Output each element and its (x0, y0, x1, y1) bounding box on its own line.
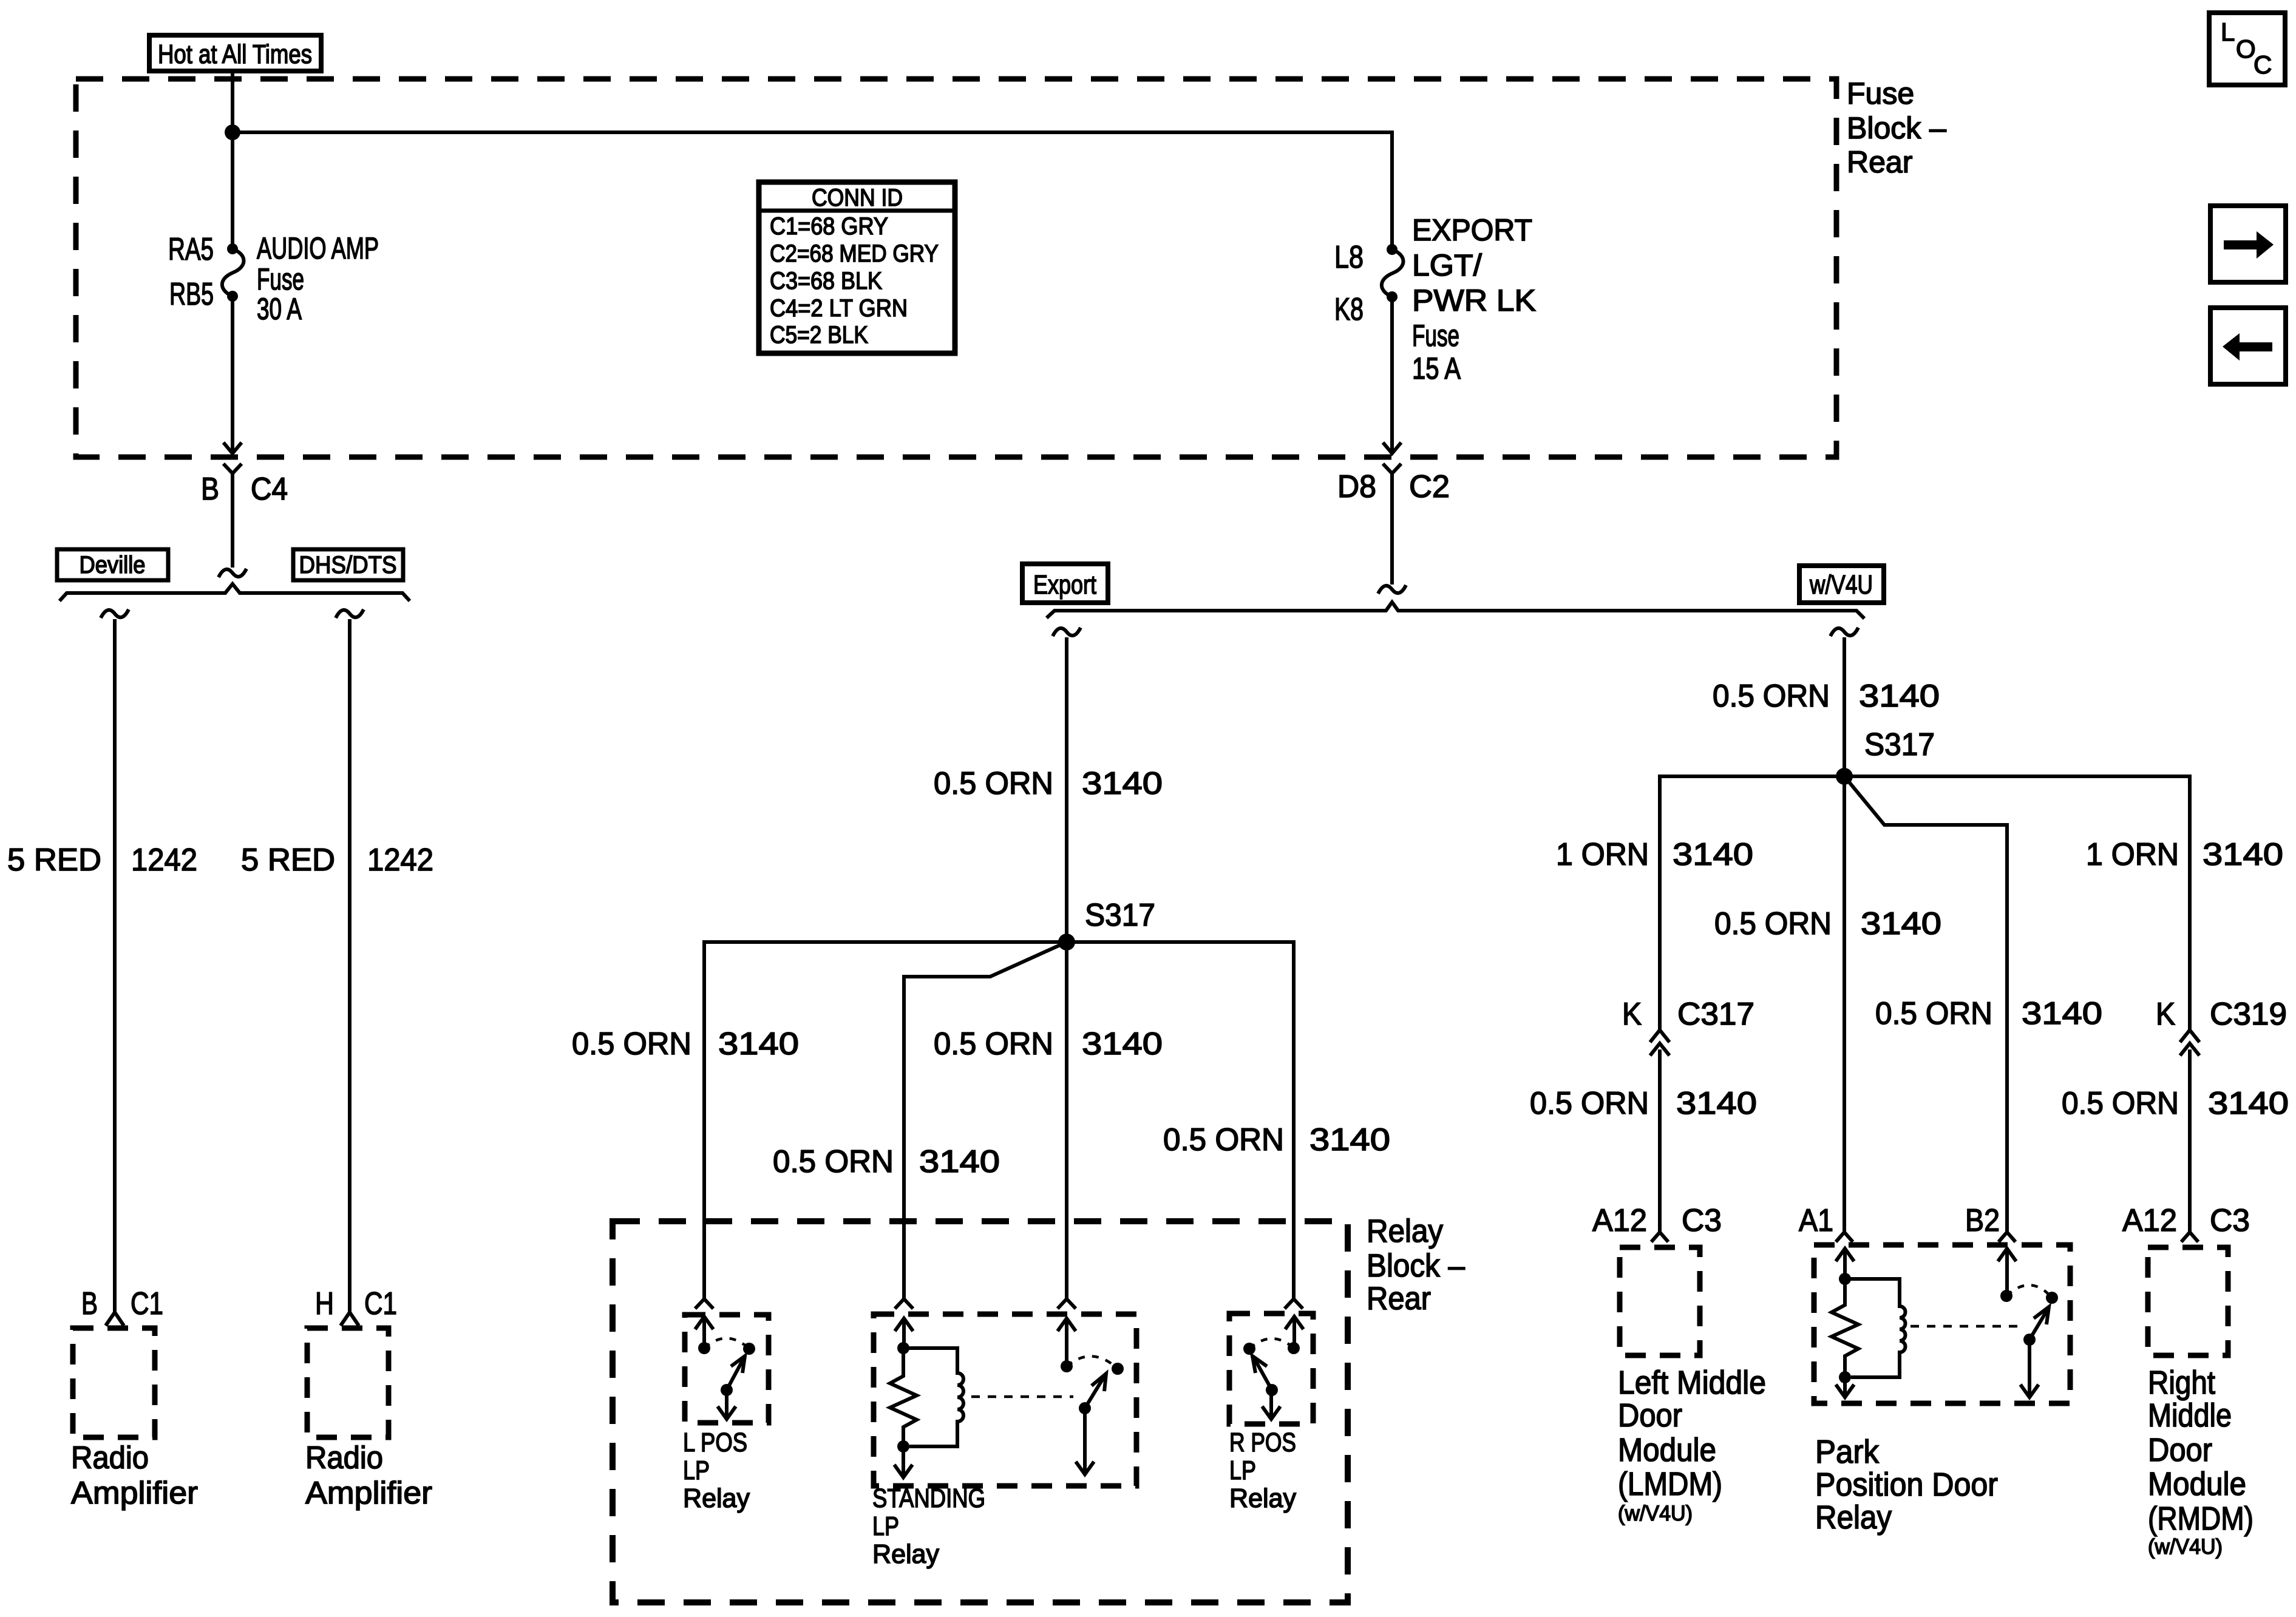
svg-text:K: K (2156, 997, 2175, 1032)
R POS LP relay dashed box (1229, 1314, 1313, 1424)
wire label 1 ORN / 3140 (RMDM branch) (2086, 837, 2283, 872)
svg-text:Relay: Relay (683, 1483, 750, 1513)
svg-text:AUDIO AMP: AUDIO AMP (257, 231, 379, 265)
Park Position Door Relay dashed box (1814, 1245, 2070, 1403)
svg-text:Rear: Rear (1367, 1281, 1431, 1317)
svg-text:C3: C3 (1682, 1203, 1722, 1238)
coil in Park relay (1845, 1279, 1906, 1377)
svg-text:C: C (2254, 50, 2272, 79)
svg-text:S317: S317 (1085, 898, 1155, 933)
svg-text:3140: 3140 (2203, 837, 2283, 872)
Park relay switch arm (2029, 1307, 2049, 1340)
RMDM dashed box (2148, 1247, 2228, 1355)
svg-text:3140: 3140 (1082, 766, 1163, 801)
label: Radio Amplifier (right) (305, 1440, 432, 1511)
svg-text:30 A: 30 A (257, 292, 302, 326)
svg-text:CONN ID: CONN ID (812, 185, 903, 211)
wire: S317 right branch to R POS relay (1067, 942, 1294, 1299)
wire: Deville branch down to Radio Amplifier (113, 619, 117, 1312)
svg-text:L8: L8 (1334, 240, 1364, 275)
svg-text:LGT/: LGT/ (1412, 248, 1482, 282)
svg-text:C319: C319 (2210, 997, 2287, 1032)
STANDING relay switch arm (1085, 1374, 1106, 1408)
wire break squiggle top of DHS/DTS wire (336, 609, 364, 618)
svg-text:0.5 ORN: 0.5 ORN (1875, 996, 1992, 1031)
svg-text:(RMDM): (RMDM) (2148, 1500, 2254, 1537)
svg-text:A12: A12 (1592, 1203, 1647, 1238)
svg-text:PWR LK: PWR LK (1412, 283, 1536, 317)
svg-text:0.5 ORN: 0.5 ORN (1714, 906, 1832, 941)
svg-text:R POS: R POS (1229, 1428, 1296, 1457)
wire label 5 RED / 1242 (left) (7, 842, 197, 878)
label: Left Middle Door Module (LMDM) (w/V4U) (1618, 1364, 1766, 1525)
connector B2 into Park relay (1999, 1232, 2016, 1242)
svg-text:3140: 3140 (2208, 1086, 2289, 1121)
svg-text:C3: C3 (2210, 1203, 2250, 1238)
L POS relay fixed contact (right) (743, 1343, 755, 1355)
svg-text:(LMDM): (LMDM) (1618, 1466, 1722, 1502)
svg-text:C2=68 MED GRY: C2=68 MED GRY (770, 240, 939, 267)
svg-text:1 ORN: 1 ORN (2086, 837, 2179, 872)
svg-text:3140: 3140 (1082, 1026, 1163, 1062)
right Radio Amplifier dashed box (307, 1328, 389, 1437)
Park relay coil pin arrow (up) (1836, 1249, 1854, 1279)
R POS relay fixed contact (left) (1243, 1343, 1255, 1355)
R POS relay pin arrow (up) (1285, 1317, 1303, 1348)
wire break squiggle top of w/V4U wire (1830, 628, 1858, 636)
R POS relay switch arm pivot (1266, 1384, 1278, 1396)
wire label 0.5 ORN / 3140 (left branch) (572, 1026, 799, 1062)
R POS relay contact arc (1249, 1338, 1294, 1349)
STANDING relay switch pivot (1079, 1402, 1091, 1414)
w/V4U label box (1799, 566, 1884, 603)
wire label 0.5 ORN / 3140 (center branch) (934, 1026, 1163, 1062)
connector into STANDING relay coil pin (895, 1299, 913, 1309)
connector A12/C3 into LMDM (1651, 1232, 1668, 1242)
wire: right S317 left branch to LMDM (1660, 776, 1844, 1029)
svg-text:Deville: Deville (80, 552, 146, 578)
wire: Export branch down to S317 (1065, 637, 1068, 942)
svg-text:3140: 3140 (2022, 996, 2102, 1031)
svg-text:L: L (2221, 18, 2235, 46)
svg-text:K8: K8 (1334, 292, 1364, 327)
wire break squiggle above Deville brace (219, 569, 246, 577)
svg-text:Amplifier: Amplifier (305, 1476, 432, 1511)
svg-text:3140: 3140 (1676, 1086, 1757, 1121)
wire: Hot at All Times down to fuse RA5 (231, 71, 234, 244)
L POS relay common arrow (down) (718, 1390, 736, 1419)
svg-text:0.5 ORN: 0.5 ORN (934, 1026, 1053, 1062)
STANDING relay coil bottom node (897, 1440, 909, 1453)
svg-text:1242: 1242 (367, 842, 433, 878)
STANDING LP relay dashed box (874, 1314, 1136, 1486)
svg-text:Module: Module (1618, 1432, 1716, 1468)
svg-text:Radio: Radio (305, 1440, 383, 1476)
connector B/C1 into left Radio Amplifier (106, 1312, 124, 1326)
Deville label box (57, 549, 168, 580)
node S317 (left splice) (1058, 934, 1075, 951)
label: EXPORT LGT/PWR LK Fuse 15 A (1412, 213, 1536, 385)
R POS relay fixed contact (right) (1288, 1342, 1300, 1354)
svg-text:Amplifier: Amplifier (71, 1476, 198, 1511)
in-line connector K/C319 (2180, 1030, 2199, 1056)
svg-text:Hot at All Times: Hot at All Times (158, 39, 312, 69)
wire: top horizontal feed to EXPORT fuse (233, 132, 1392, 245)
brace splitting to Export and w/V4U wires (1047, 602, 1864, 619)
LOC box (2209, 13, 2285, 85)
Hot at All Times label box (149, 35, 321, 71)
right arrow nav box (2210, 206, 2286, 282)
wire label 0.5 ORN / 3140 (RMDM lower) (2062, 1086, 2289, 1121)
svg-text:B2: B2 (1965, 1203, 2000, 1238)
STANDING relay coil top node (897, 1342, 909, 1354)
svg-text:Module: Module (2148, 1466, 2246, 1502)
wire: S317 left branch to L POS relay (704, 942, 1067, 1299)
L POS relay fixed contact (left) (698, 1342, 710, 1354)
R POS relay common arrow (down) (1262, 1390, 1280, 1419)
svg-text:A1: A1 (1799, 1203, 1833, 1238)
svg-text:B: B (201, 472, 219, 507)
svg-text:(w/V4U): (w/V4U) (2148, 1535, 2223, 1559)
STANDING relay contact arc (1067, 1356, 1118, 1369)
svg-text:EXPORT: EXPORT (1412, 213, 1532, 247)
svg-text:Fuse: Fuse (1847, 76, 1914, 110)
wire label 0.5 ORN / 3140 (right branch) (1163, 1122, 1390, 1158)
arrow: exit at fuse block bottom left (223, 442, 242, 453)
resistor in STANDING relay (890, 1348, 917, 1445)
wire label 5 RED / 1242 (right) (241, 842, 433, 878)
svg-text:Left Middle: Left Middle (1618, 1364, 1766, 1401)
svg-text:1 ORN: 1 ORN (1556, 837, 1649, 872)
wire label 0.5 ORN / 3140 (LMDM lower) (1530, 1086, 1757, 1121)
node S317 (right splice) (1836, 768, 1853, 785)
Park relay switch fixed contact (right) (2046, 1292, 2058, 1304)
svg-text:C5=2 BLK: C5=2 BLK (770, 322, 868, 348)
connector into STANDING relay switch pin (1058, 1299, 1076, 1309)
svg-text:Block –: Block – (1367, 1248, 1465, 1284)
svg-text:Fuse: Fuse (1412, 319, 1459, 353)
svg-text:C317: C317 (1677, 997, 1754, 1032)
wire label 0.5 ORN / 3140 (Export wire) (934, 766, 1163, 801)
connector A12/C3 into RMDM (2181, 1232, 2198, 1242)
wire label 0.5 ORN / 3140 (coil branch) (773, 1144, 1000, 1179)
svg-text:STANDING: STANDING (872, 1483, 985, 1513)
wire break squiggle above Export brace (1378, 585, 1406, 594)
svg-text:Door: Door (2148, 1432, 2212, 1468)
label: Fuse Block - Rear (1847, 76, 1946, 179)
svg-text:Relay: Relay (1367, 1213, 1443, 1249)
connector B/C4 at fuse block bottom (223, 464, 242, 568)
svg-text:Middle: Middle (2148, 1397, 2232, 1434)
svg-text:D8: D8 (1337, 469, 1376, 504)
svg-text:w/V4U: w/V4U (1809, 570, 1873, 600)
connector into R POS relay (1285, 1299, 1303, 1309)
left arrow nav box (2210, 308, 2286, 384)
svg-text:C1: C1 (364, 1286, 397, 1321)
svg-text:0.5 ORN: 0.5 ORN (1163, 1122, 1284, 1158)
svg-text:Park: Park (1815, 1434, 1880, 1470)
svg-text:L POS: L POS (683, 1428, 747, 1457)
Park relay coil bottom node (1839, 1371, 1851, 1383)
svg-text:Fuse: Fuse (257, 262, 304, 296)
label: AUDIO AMP Fuse 30 A (257, 231, 379, 326)
Park relay switch pin arrow (up) (1998, 1249, 2016, 1296)
wire: w/V4U branch down to right S317 (1843, 637, 1846, 776)
svg-text:Door: Door (1618, 1397, 1682, 1434)
svg-text:LP: LP (683, 1456, 710, 1485)
svg-text:Export: Export (1033, 570, 1096, 600)
svg-text:C1=68 GRY: C1=68 GRY (770, 213, 888, 240)
svg-text:DHS/DTS: DHS/DTS (299, 552, 397, 578)
wire: AUDIO AMP fuse to fuse block exit arrow (231, 296, 234, 452)
svg-text:S317: S317 (1864, 727, 1935, 762)
wire: DHS/DTS branch down to Radio Amplifier (348, 619, 352, 1312)
L POS LP relay dashed box (685, 1315, 769, 1423)
fuse block dashed box (76, 79, 1836, 457)
wire label 1 ORN / 3140 (LMDM branch) (1556, 837, 1753, 872)
connector into L POS relay (695, 1299, 713, 1309)
STANDING relay coil exit arrow (down) (894, 1446, 912, 1477)
coil in STANDING relay (903, 1348, 963, 1446)
svg-text:Relay: Relay (1229, 1483, 1296, 1513)
svg-text:15 A: 15 A (1412, 351, 1461, 385)
Park relay contact arc (2006, 1285, 2052, 1298)
svg-text:Block –: Block – (1847, 111, 1946, 145)
DHS/DTS label box (293, 549, 403, 580)
svg-text:K: K (1622, 997, 1642, 1032)
arrow: exit at fuse block bottom right (1383, 442, 1401, 453)
STANDING relay switch pin arrow (up) (1058, 1318, 1076, 1366)
label: STANDING LP Relay (872, 1483, 985, 1569)
svg-text:Rear: Rear (1847, 145, 1912, 179)
wire: right S317 diagonal branch to Park relay switch (1844, 776, 2007, 1232)
Park relay switch fixed contact (left) (2000, 1290, 2012, 1302)
label: L POS LP Relay (683, 1428, 750, 1513)
svg-text:0.5 ORN: 0.5 ORN (2062, 1086, 2179, 1121)
svg-text:LP: LP (1229, 1456, 1256, 1485)
svg-text:0.5 ORN: 0.5 ORN (773, 1144, 894, 1179)
connector H/C1 into right Radio Amplifier (341, 1312, 359, 1326)
svg-text:RA5: RA5 (168, 232, 214, 267)
label: Radio Amplifier (left) (71, 1440, 198, 1511)
relay block dashed box (613, 1221, 1348, 1602)
svg-text:3140: 3140 (919, 1144, 1000, 1179)
svg-text:Relay: Relay (872, 1539, 939, 1569)
wire label 0.5 ORN / 3140 (park switch branch) (1875, 996, 2102, 1031)
wire: S317 straight down to STANDING relay switch (1065, 942, 1068, 1299)
dashed actuation link Park relay (1911, 1325, 2018, 1328)
svg-text:3140: 3140 (1861, 906, 1941, 941)
svg-text:5 RED: 5 RED (241, 842, 335, 878)
svg-text:0.5 ORN: 0.5 ORN (572, 1026, 691, 1062)
svg-text:Position Door: Position Door (1815, 1466, 1998, 1503)
svg-text:C1: C1 (131, 1286, 163, 1321)
L POS relay contact arc (704, 1338, 749, 1349)
node: junction on feed wire (225, 124, 240, 140)
L POS relay pin arrow (up) (695, 1317, 713, 1348)
svg-text:RB5: RB5 (169, 277, 214, 312)
left Radio Amplifier dashed box (73, 1328, 155, 1437)
svg-text:0.5 ORN: 0.5 ORN (1530, 1086, 1649, 1121)
svg-text:3140: 3140 (1673, 837, 1753, 872)
wire: right S317 right branch to RMDM (1844, 776, 2190, 1029)
svg-text:3140: 3140 (718, 1026, 799, 1062)
svg-text:LP: LP (872, 1511, 899, 1541)
wire break squiggle top of Deville wire (101, 609, 129, 618)
wire label 0.5 ORN / 3140 (w/V4U wire) (1713, 679, 1940, 714)
label: R POS LP Relay (1229, 1428, 1296, 1513)
svg-text:5 RED: 5 RED (7, 842, 101, 878)
Park relay coil exit arrow (down) (1836, 1377, 1854, 1397)
wire: right S317 straight down to Park relay coil (1843, 776, 1846, 1232)
dashed actuation link STANDING relay (971, 1395, 1073, 1398)
svg-text:B: B (81, 1286, 98, 1321)
svg-text:3140: 3140 (1859, 679, 1940, 714)
Park relay switch pivot (2023, 1334, 2036, 1346)
svg-text:3140: 3140 (1309, 1122, 1390, 1158)
svg-text:(w/V4U): (w/V4U) (1618, 1502, 1693, 1525)
in-line connector K/C317 (1650, 1030, 1669, 1056)
wire: S317 diagonal branch to STANDING relay coil (904, 942, 1067, 1299)
STANDING relay coil pin arrow (up) (895, 1318, 913, 1348)
svg-text:1242: 1242 (131, 842, 197, 878)
svg-text:0.5 ORN: 0.5 ORN (1713, 679, 1830, 714)
svg-text:C4=2 LT GRN: C4=2 LT GRN (770, 295, 908, 322)
LMDM dashed box (1620, 1247, 1700, 1355)
Export label box (1022, 564, 1108, 603)
svg-text:C2: C2 (1409, 469, 1450, 504)
svg-text:Relay: Relay (1815, 1499, 1892, 1536)
svg-text:A12: A12 (2122, 1203, 2177, 1238)
CONN ID table (759, 182, 955, 353)
wire label 0.5 ORN / 3140 (park coil branch) (1714, 906, 1941, 941)
R POS relay switch arm (1252, 1356, 1272, 1390)
svg-text:Right: Right (2148, 1364, 2215, 1401)
fuse: EXPORT LGT/PWR LK 15A (1382, 244, 1404, 302)
resistor in Park relay (1832, 1279, 1858, 1377)
STANDING relay switch fixed contact (right) (1112, 1363, 1124, 1375)
svg-text:Radio: Radio (71, 1440, 149, 1476)
svg-text:C4: C4 (251, 472, 288, 507)
label: Relay Block - Rear (1367, 1213, 1465, 1317)
svg-text:O: O (2236, 35, 2256, 63)
Park relay coil top node (1839, 1273, 1851, 1285)
label: Right Middle Door Module (RMDM) (w/V4U) (2148, 1364, 2254, 1559)
STANDING relay common arrow (down) (1076, 1408, 1094, 1474)
L POS relay switch arm (727, 1356, 745, 1390)
Park relay common arrow (down) (2020, 1340, 2039, 1397)
L POS relay switch arm pivot (721, 1384, 733, 1396)
wire break squiggle top of Export wire (1053, 628, 1081, 636)
svg-text:C3=68 BLK: C3=68 BLK (770, 268, 882, 294)
svg-text:0.5 ORN: 0.5 ORN (934, 766, 1053, 801)
connector D8/C2 at fuse block bottom (1383, 464, 1401, 585)
fuse: AUDIO AMP 30A (222, 243, 244, 302)
label: Park Position Door Relay (1815, 1434, 1998, 1536)
connector A1 into Park relay (1836, 1232, 1853, 1242)
brace splitting to Deville and DHS/DTS wires (59, 584, 410, 601)
STANDING relay switch fixed contact (left) (1061, 1360, 1073, 1372)
wire: EXPORT fuse to fuse block exit arrow (1390, 297, 1394, 452)
svg-text:H: H (315, 1286, 334, 1321)
